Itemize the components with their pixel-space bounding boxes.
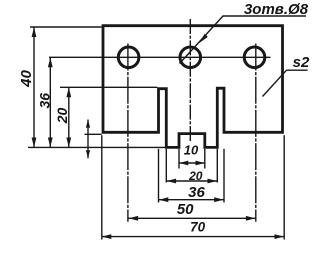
step dim arrows xyxy=(86,120,90,128)
svg-text:36: 36 xyxy=(188,184,205,201)
dimension 40 line xyxy=(34,27,284,237)
extension line side bottom level xyxy=(85,133,102,135)
vertical centerline hole right xyxy=(255,44,257,222)
leader shelf 3 holes label xyxy=(223,15,307,17)
extension slot outer right xyxy=(223,149,225,203)
dim 40 arrows xyxy=(32,27,37,37)
leader s2 line xyxy=(263,70,287,96)
svg-text:3отв.Ø8: 3отв.Ø8 xyxy=(244,1,309,18)
hole left xyxy=(118,47,139,68)
extension line 70 left xyxy=(101,135,103,239)
leader arrow to middle hole xyxy=(199,34,208,44)
svg-text:36: 36 xyxy=(37,93,53,109)
extension slot inner right xyxy=(216,149,218,183)
leader line 3 holes label xyxy=(180,16,224,64)
extension notch left xyxy=(178,149,180,169)
svg-text:20: 20 xyxy=(188,169,203,183)
dim 36 arrows xyxy=(48,58,53,68)
dim 50 arrows xyxy=(129,216,139,221)
extension slot outer left xyxy=(158,149,160,203)
extension line slot top level xyxy=(60,86,157,88)
hole right xyxy=(244,47,265,68)
dim 36b arrows xyxy=(159,197,169,202)
extension notch right xyxy=(204,149,206,169)
svg-text:20: 20 xyxy=(54,108,70,125)
dim 10 arrows xyxy=(179,161,188,166)
extension line top edge xyxy=(30,26,102,28)
extension slot inner left xyxy=(165,149,167,183)
horizontal centerline of holes xyxy=(49,56,271,58)
extension baseline bottom xyxy=(28,146,165,148)
leader s2 shelf xyxy=(287,69,308,71)
arrowheads xyxy=(32,27,284,239)
dim 20 arrows xyxy=(66,88,71,98)
dim 70 arrows xyxy=(102,234,112,239)
extension line 70 right xyxy=(283,135,285,239)
svg-text:70: 70 xyxy=(190,220,206,235)
svg-text:50: 50 xyxy=(177,201,194,218)
hole middle xyxy=(180,47,201,68)
svg-text:10: 10 xyxy=(184,142,199,157)
vertical centerline hole middle xyxy=(189,19,191,143)
plate outline xyxy=(103,26,283,148)
svg-text:s2: s2 xyxy=(293,54,310,71)
vertical centerline hole left xyxy=(127,44,129,222)
dim 20b arrows xyxy=(167,179,177,184)
svg-text:40: 40 xyxy=(18,70,35,88)
